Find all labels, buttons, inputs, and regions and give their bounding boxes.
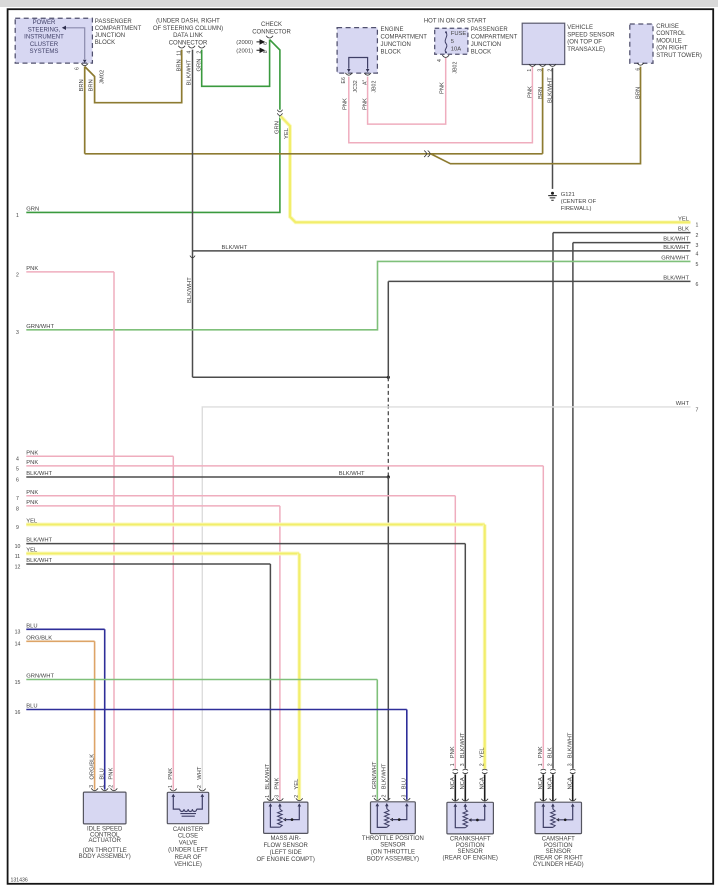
wire PNK A to fuse 5 [368, 58, 446, 125]
check connector pin [266, 36, 273, 38]
wire BLU down to throttle position sensor pin 3 [406, 710, 408, 800]
svg-text:BLOCK: BLOCK [381, 49, 401, 55]
svg-text:SENSOR: SENSOR [546, 849, 572, 855]
svg-text:BLK/WHT: BLK/WHT [663, 237, 689, 243]
throttle position sensor internal circuit [376, 803, 380, 806]
canister close valve internal coil [172, 794, 176, 797]
power steering / instrument cluster systems box [15, 18, 92, 63]
svg-text:BLK/WHT: BLK/WHT [222, 245, 248, 251]
wire BLK/WHT line 10 [26, 543, 465, 545]
splice on BLK/WHT [190, 256, 195, 258]
wire WHT canister close valve pin 2 to right edge line 7 [202, 407, 690, 790]
data link connector pin 4 [188, 46, 195, 48]
svg-text:10: 10 [15, 544, 21, 550]
wire BLK/WHT data link pin 4 vertical [192, 50, 194, 378]
svg-text:TRANSAXLE): TRANSAXLE) [567, 47, 605, 53]
wire GRN data link pin2 to check connector [202, 40, 270, 87]
wire PNK down to idle speed control pin 2 [113, 272, 115, 790]
svg-text:OF STEERING COLUMN): OF STEERING COLUMN) [153, 26, 223, 32]
svg-text:PNK: PNK [439, 82, 445, 94]
wire BRN vehicle speed sensor pin3 [542, 68, 544, 154]
wire BRN to cruise control module [431, 67, 641, 164]
svg-text:3: 3 [16, 330, 19, 336]
wire PNK line 4 [26, 455, 173, 457]
svg-text:(UNDER DASH, RIGHT: (UNDER DASH, RIGHT [156, 19, 220, 25]
wire BLK/WHT branch to right edge line 4 [193, 250, 691, 252]
canister close valve pin 1 [170, 789, 177, 791]
wire GRN/WHT down to throttle position sensor pin 1 [376, 680, 378, 800]
throttle position sensor pin 1 [374, 798, 381, 800]
svg-text:FLOW SENSOR: FLOW SENSOR [264, 843, 309, 849]
svg-text:3: 3 [567, 763, 573, 766]
wire NCA pin 3 [572, 774, 574, 800]
idle speed control actuator box [83, 792, 126, 824]
svg-text:FUSE: FUSE [451, 31, 467, 37]
fuse 5 box [435, 28, 468, 54]
svg-text:BLK/WHT: BLK/WHT [663, 276, 689, 282]
vehicle speed sensor pin 3 [539, 64, 546, 66]
svg-text:PNK: PNK [109, 768, 115, 780]
svg-text:PNK: PNK [26, 450, 38, 456]
svg-text:CRANKSHAFT: CRANKSHAFT [450, 837, 491, 843]
svg-text:BLK/WHT: BLK/WHT [187, 277, 193, 303]
camshaft position sensor internal circuit [542, 803, 546, 806]
crankshaft sensor pin 3 [462, 799, 469, 801]
crankshaft sensor pin 1 [452, 799, 459, 801]
junction on BLK/WHT [387, 475, 390, 478]
svg-text:CONTROL: CONTROL [656, 31, 686, 37]
wire GRN/WHT line 3 to right edge line 5 [26, 261, 690, 329]
wire NCA pin 2 [552, 774, 554, 800]
svg-text:ENGINE: ENGINE [381, 27, 404, 33]
svg-text:JM02: JM02 [99, 70, 105, 84]
svg-text:BLK/WHT: BLK/WHT [265, 763, 271, 789]
svg-text:STEERING,: STEERING, [28, 27, 61, 33]
svg-text:PNK: PNK [26, 490, 38, 496]
svg-text:BLU: BLU [26, 704, 37, 710]
svg-text:4: 4 [16, 457, 19, 463]
svg-text:16: 16 [15, 710, 21, 716]
wire YEL down to mass air-flow sensor pin 2 [297, 554, 301, 800]
svg-text:(2001): (2001) [236, 49, 253, 55]
inline connector break pin 2 [550, 769, 555, 770]
wire BLK/WHT right edge line 3 [573, 242, 691, 244]
svg-text:4: 4 [696, 251, 699, 257]
svg-text:(REAR OF RIGHT: (REAR OF RIGHT [534, 856, 583, 862]
idle speed control pin 2 [111, 788, 118, 790]
svg-text:131436: 131436 [11, 878, 28, 884]
svg-text:BLK/WHT: BLK/WHT [382, 763, 388, 789]
camshaft sensor pin 2 [550, 799, 557, 801]
svg-text:12: 12 [15, 564, 21, 570]
svg-text:VEHICLE): VEHICLE) [174, 862, 202, 868]
svg-text:(REAR OF ENGINE): (REAR OF ENGINE) [443, 856, 498, 862]
svg-text:YEL: YEL [678, 216, 690, 222]
svg-text:3: 3 [460, 763, 466, 766]
svg-text:6: 6 [696, 282, 699, 288]
throttle position sensor pin 2 [383, 798, 390, 800]
inline connector break pin 3 [570, 769, 575, 770]
svg-text:BRN: BRN [89, 79, 95, 91]
wire BRN bus [85, 153, 543, 155]
wire YEL to right edge line 1 [281, 116, 691, 222]
svg-text:BRN: BRN [636, 87, 642, 99]
svg-text:JB02: JB02 [452, 62, 458, 74]
pin E6 of engine junction block [345, 73, 352, 75]
svg-text:BLOCK: BLOCK [471, 49, 491, 55]
svg-text:PNK: PNK [26, 460, 38, 466]
svg-text:BLK: BLK [548, 747, 554, 758]
svg-text:NCA: NCA [538, 777, 544, 789]
svg-text:INSTRUMENT: INSTRUMENT [24, 35, 64, 41]
wire BLK/WHT down to crankshaft sensor pin 3 [464, 544, 466, 769]
wire ORG/BLK down to idle speed control pin 3 [94, 641, 96, 789]
svg-text:NCA: NCA [567, 777, 573, 789]
svg-text:MODULE: MODULE [656, 38, 682, 44]
svg-text:BLK: BLK [678, 227, 689, 233]
svg-text:(ON TOP OF: (ON TOP OF [567, 40, 602, 46]
svg-text:JB02: JB02 [371, 81, 377, 93]
svg-text:1: 1 [16, 213, 19, 219]
svg-text:THROTTLE POSITION: THROTTLE POSITION [362, 836, 424, 842]
svg-text:BLK/WHT: BLK/WHT [339, 471, 365, 477]
svg-text:9: 9 [16, 525, 19, 531]
svg-text:BLU: BLU [100, 768, 106, 779]
svg-text:2: 2 [197, 785, 203, 788]
svg-text:WHT: WHT [197, 766, 203, 780]
svg-text:YEL: YEL [294, 778, 300, 790]
wire BLK/WHT line 6 [26, 476, 388, 478]
wire PNK down to canister close valve pin 1 [172, 456, 174, 790]
svg-text:(ON RIGHT: (ON RIGHT [656, 46, 688, 52]
svg-text:G121: G121 [561, 192, 575, 198]
svg-text:1: 1 [99, 785, 105, 788]
svg-text:CONNECTOR: CONNECTOR [169, 40, 208, 46]
splice on BRN [424, 151, 426, 157]
svg-text:CANISTER: CANISTER [173, 827, 204, 833]
pin A of engine junction block [364, 73, 371, 75]
wiper arrow [468, 818, 471, 821]
junction on BLK/WHT [387, 376, 390, 379]
svg-text:1: 1 [450, 763, 456, 766]
mass air-flow sensor pin 1 [267, 798, 274, 800]
wire GRN check connector branch [270, 40, 280, 110]
pin arrow [366, 69, 370, 72]
mass air-flow sensor pin 3 [277, 798, 284, 800]
svg-text:NCA: NCA [548, 777, 554, 789]
svg-text:CLOSE: CLOSE [178, 834, 198, 840]
svg-text:7: 7 [16, 496, 19, 502]
camshaft position sensor box [535, 802, 582, 833]
svg-text:2: 2 [548, 763, 554, 766]
canister close valve box [167, 792, 208, 823]
svg-text:BLK/WHT: BLK/WHT [568, 732, 574, 758]
svg-text:(CENTER OF: (CENTER OF [561, 199, 597, 205]
svg-text:VALVE: VALVE [179, 840, 197, 846]
svg-text:4: 4 [186, 51, 192, 54]
svg-text:HOT IN ON OR START: HOT IN ON OR START [424, 19, 487, 25]
inline connector break pin 2 [482, 769, 487, 770]
vehicle speed sensor pin 1 [529, 64, 536, 66]
data link connector pin 11 [178, 46, 185, 48]
svg-text:(ON THROTTLE: (ON THROTTLE [371, 849, 415, 855]
svg-text:(2000): (2000) [236, 40, 253, 46]
svg-text:1: 1 [527, 69, 533, 72]
svg-text:6: 6 [263, 42, 269, 45]
wire YEL line 11 [26, 552, 299, 556]
wire NCA pin 2 [484, 774, 486, 800]
svg-text:1: 1 [168, 785, 174, 788]
svg-text:2: 2 [16, 272, 19, 278]
svg-text:13: 13 [15, 630, 21, 636]
splice on BRN [428, 151, 430, 157]
idle speed control pin 3 [91, 788, 98, 790]
svg-text:10A: 10A [451, 47, 461, 53]
svg-text:COMPARTMENT: COMPARTMENT [471, 35, 518, 41]
svg-text:BLK/WHT: BLK/WHT [26, 471, 52, 477]
vehicle speed sensor pin 2 [549, 64, 556, 66]
svg-text:PNK: PNK [275, 778, 281, 790]
svg-text:3: 3 [401, 795, 407, 798]
svg-text:PNK: PNK [528, 86, 534, 98]
svg-text:2: 2 [109, 785, 115, 788]
svg-text:POWER: POWER [33, 20, 56, 26]
svg-text:CAMSHAFT: CAMSHAFT [542, 837, 575, 843]
wire PNK down to camshaft sensor pin 1 [542, 466, 544, 769]
mass air-flow sensor box [264, 802, 308, 833]
svg-text:1: 1 [538, 763, 544, 766]
svg-text:JC32: JC32 [353, 80, 359, 92]
cruise control module box [630, 24, 653, 63]
svg-text:2: 2 [294, 795, 300, 798]
svg-text:BRN: BRN [79, 79, 85, 91]
wire BLK/WHT horizontal to junction [193, 376, 389, 378]
camshaft sensor pin 3 [569, 799, 576, 801]
svg-text:8: 8 [16, 506, 19, 512]
svg-text:3: 3 [696, 243, 699, 249]
pin 6 of power steering box [81, 63, 88, 65]
throttle position sensor box [371, 802, 416, 834]
svg-text:GRN/WHT: GRN/WHT [661, 256, 689, 262]
svg-text:6: 6 [74, 67, 80, 70]
svg-text:BLOCK: BLOCK [95, 40, 115, 46]
svg-text:BRN: BRN [177, 59, 183, 71]
wire BLK/WHT down to camshaft sensor pin 3 [572, 243, 574, 769]
svg-text:CYLINDER HEAD): CYLINDER HEAD) [533, 862, 584, 868]
wire YEL line 9 [26, 523, 484, 527]
wire PNK line 7 [26, 495, 455, 497]
svg-text:OF ENGINE COMPT): OF ENGINE COMPT) [257, 857, 315, 863]
svg-text:VEHICLE: VEHICLE [567, 25, 593, 31]
svg-text:1: 1 [696, 223, 699, 229]
inline connector break pin 1 [541, 769, 546, 770]
svg-text:6: 6 [635, 68, 641, 71]
wire BLK/WHT vehicle speed sensor pin2 to ground [552, 68, 554, 189]
camshaft sensor pin 1 [540, 799, 547, 801]
svg-text:14: 14 [15, 642, 21, 648]
svg-text:15: 15 [15, 680, 21, 686]
internal bus bar [349, 58, 368, 69]
wire GRN/WHT line 15 [26, 679, 377, 681]
svg-text:BLK/WHT: BLK/WHT [460, 732, 466, 758]
wiper arrow [390, 818, 393, 821]
wire GRN to left edge line 1 [26, 116, 280, 212]
svg-text:BLK/WHT: BLK/WHT [26, 538, 52, 544]
wire BRN pin6 to data link connector pin 11 [85, 50, 182, 103]
wiper arrow [283, 818, 286, 821]
svg-text:SYSTEMS: SYSTEMS [30, 49, 59, 55]
inline connector break pin 1 [453, 769, 458, 770]
svg-text:CONNECTOR: CONNECTOR [252, 30, 291, 36]
svg-text:JUNCTION: JUNCTION [471, 42, 501, 48]
svg-text:(LEFT SIDE: (LEFT SIDE [270, 850, 302, 856]
svg-text:BLU: BLU [402, 778, 408, 789]
svg-text:11: 11 [176, 50, 182, 55]
wire BLK/WHT right edge line 6 [388, 280, 690, 282]
svg-text:SENSOR: SENSOR [380, 842, 406, 848]
wire PNK E6 to vehicle speed sensor pin 1 [349, 67, 533, 143]
wire BLU line 13 [26, 628, 104, 630]
svg-text:NCA: NCA [479, 777, 485, 789]
svg-text:ACTUATOR: ACTUATOR [88, 838, 121, 844]
svg-text:2: 2 [479, 763, 485, 766]
svg-text:6: 6 [16, 477, 19, 483]
splice on GRN [277, 110, 282, 112]
wire YEL down to crankshaft sensor pin 2 [483, 525, 487, 769]
svg-text:4: 4 [437, 59, 443, 62]
wire BLU line 16 [26, 709, 407, 711]
vehicle speed sensor box [522, 23, 565, 64]
engine compartment junction block box [337, 28, 377, 74]
svg-text:CRUISE: CRUISE [656, 24, 679, 30]
pin arrow [83, 60, 87, 63]
wire BLK down to camshaft sensor pin 2 [552, 233, 554, 769]
svg-text:NCA: NCA [460, 777, 466, 789]
svg-text:YEL: YEL [480, 747, 486, 759]
canister close valve pin 2 [199, 789, 206, 791]
svg-text:POSITION: POSITION [544, 843, 573, 849]
wire BLK/WHT junction up to right edge line 6 [387, 281, 389, 377]
throttle position sensor pin 3 [403, 798, 410, 800]
svg-text:POSITION: POSITION [456, 843, 485, 849]
svg-text:5: 5 [451, 39, 454, 45]
fuse element [445, 33, 447, 53]
ground G121 [551, 192, 554, 195]
svg-text:BLK/WHT: BLK/WHT [663, 245, 689, 251]
wire BLK/WHT line 12 [26, 563, 270, 565]
svg-text:BLK/WHT: BLK/WHT [26, 558, 52, 564]
wire BLK/WHT down to mass air-flow sensor pin 1 [269, 564, 271, 800]
svg-text:PASSENGER: PASSENGER [95, 19, 133, 25]
svg-text:CLUSTER: CLUSTER [30, 42, 59, 48]
svg-text:DATA LINK: DATA LINK [173, 33, 203, 39]
wire NCA pin 3 [464, 774, 466, 800]
crankshaft position sensor internal circuit [454, 804, 458, 807]
svg-text:7: 7 [696, 407, 699, 413]
mass air-flow sensor pin 2 [296, 798, 303, 800]
inline connector break pin 3 [463, 769, 468, 770]
wire BRN pin6 to bus [84, 67, 86, 154]
splice on GRN [277, 113, 282, 115]
svg-text:JUNCTION: JUNCTION [381, 42, 411, 48]
svg-text:PASSENGER: PASSENGER [471, 27, 509, 33]
svg-text:PNK: PNK [168, 768, 174, 780]
wire dashed link [387, 377, 389, 477]
svg-text:2: 2 [381, 795, 387, 798]
svg-text:COMPARTMENT: COMPARTMENT [95, 26, 142, 32]
svg-text:BODY ASSEMBLY): BODY ASSEMBLY) [367, 856, 419, 862]
wire BLK right edge line 2 [553, 232, 691, 234]
svg-text:JUNCTION: JUNCTION [95, 33, 125, 39]
svg-text:2: 2 [696, 233, 699, 239]
svg-text:1: 1 [372, 795, 378, 798]
wiper arrow [556, 818, 559, 821]
pin 4 of fuse 5 [442, 55, 449, 57]
svg-text:E6: E6 [341, 77, 347, 83]
svg-text:(UNDER LEFT: (UNDER LEFT [168, 848, 208, 854]
wire BLK/WHT down to throttle position sensor pin 2 [387, 477, 389, 800]
svg-text:CHECK: CHECK [261, 22, 282, 28]
svg-text:PNK: PNK [342, 98, 348, 110]
top gray strip [0, 0, 718, 7]
wire NCA pin 1 [454, 774, 456, 800]
internal wire with arrow [66, 28, 85, 59]
data link connector pin 2 [198, 46, 205, 48]
cruise control module pin 6 [637, 63, 644, 65]
wire PNK line 8 [26, 505, 280, 507]
svg-text:FIREWALL): FIREWALL) [561, 206, 592, 212]
svg-text:GRN: GRN [26, 207, 39, 213]
mass air-flow sensor internal circuit [269, 803, 273, 806]
svg-text:ORG/BLK: ORG/BLK [89, 754, 95, 780]
svg-text:MASS AIR-: MASS AIR- [271, 836, 301, 842]
svg-text:PNK: PNK [26, 500, 38, 506]
svg-text:1: 1 [265, 795, 271, 798]
wire ORG/BLK line 14 [26, 640, 94, 642]
svg-text:STRUT TOWER): STRUT TOWER) [656, 53, 702, 59]
wire PNK down to crankshaft sensor pin 1 [454, 496, 456, 769]
crankshaft sensor pin 2 [481, 799, 488, 801]
wire PNK line 5 [26, 465, 543, 467]
crankshaft position sensor box [447, 802, 494, 834]
svg-text:5: 5 [696, 262, 699, 268]
svg-text:BODY ASSEMBLY): BODY ASSEMBLY) [79, 854, 131, 860]
pin arrow [347, 69, 351, 72]
svg-text:3: 3 [89, 785, 95, 788]
svg-text:8: 8 [263, 50, 269, 53]
svg-text:PNK: PNK [450, 746, 456, 758]
svg-text:REAR OF: REAR OF [175, 855, 202, 861]
wire BLU down to idle speed control pin 1 [104, 629, 106, 789]
wire PNK line 2 [26, 271, 114, 273]
svg-text:PNK: PNK [538, 746, 544, 758]
wire NCA pin 1 [542, 774, 544, 800]
idle speed control pin 1 [101, 788, 108, 790]
svg-text:3: 3 [275, 795, 281, 798]
svg-text:11: 11 [15, 554, 20, 560]
svg-text:5: 5 [16, 466, 19, 472]
svg-text:WHT: WHT [676, 401, 690, 407]
svg-text:NCA: NCA [450, 777, 456, 789]
svg-text:SPEED SENSOR: SPEED SENSOR [567, 32, 615, 38]
svg-text:PNK: PNK [26, 266, 38, 272]
wire PNK down to mass air-flow sensor pin 3 [279, 506, 281, 800]
svg-text:(ON THROTTLE: (ON THROTTLE [83, 848, 127, 854]
svg-text:GRN/WHT: GRN/WHT [26, 674, 54, 680]
svg-text:SENSOR: SENSOR [458, 849, 484, 855]
svg-text:COMPARTMENT: COMPARTMENT [381, 35, 428, 41]
svg-text:GRN/WHT: GRN/WHT [372, 761, 378, 789]
